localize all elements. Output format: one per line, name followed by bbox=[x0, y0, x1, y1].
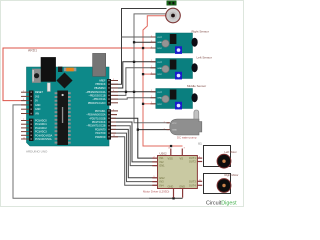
svg-text:Motor Driver (L293D): Motor Driver (L293D) bbox=[143, 189, 169, 193]
svg-text:3V3: 3V3 bbox=[35, 95, 40, 98]
wire Arduino PD1 to driver IN4 bbox=[111, 137, 158, 186]
svg-text:GND: GND bbox=[35, 104, 41, 107]
svg-text:PD7/AIN1: PD7/AIN1 bbox=[95, 110, 106, 113]
svg-text:Left Sensor: Left Sensor bbox=[197, 55, 212, 59]
wire stub Arduino PD7 bbox=[111, 114, 118, 116]
svg-text:PC1/ADC1: PC1/ADC1 bbox=[35, 123, 47, 126]
arduino USB connector bbox=[93, 53, 106, 76]
svg-text:GND: GND bbox=[157, 42, 162, 44]
wire box right motor bbox=[204, 174, 231, 194]
svg-text:2: 2 bbox=[151, 66, 152, 68]
svg-text:Right Motor: Right Motor bbox=[225, 173, 239, 177]
svg-text:4: 4 bbox=[113, 90, 114, 92]
svg-text:~PD3/INT1/OC2B: ~PD3/INT1/OC2B bbox=[86, 125, 105, 128]
logo CircuitDigest bbox=[206, 201, 237, 207]
wire servo grey lead down to water pump + bbox=[134, 14, 170, 123]
svg-text:PB5/SCK: PB5/SCK bbox=[95, 83, 106, 86]
wire red power branch to servo and down to motor driver VS bbox=[143, 16, 183, 146]
svg-text:IN3: IN3 bbox=[160, 180, 165, 184]
svg-text:VIN: VIN bbox=[35, 113, 39, 116]
svg-text:GND: GND bbox=[172, 130, 177, 132]
wire red stub to sensor 2 VCC bbox=[143, 73, 156, 75]
wire sensor1 OUT bbox=[122, 36, 156, 38]
arduino board name text bbox=[26, 149, 48, 153]
svg-text:EN1: EN1 bbox=[160, 164, 166, 168]
svg-text:3: 3 bbox=[151, 102, 152, 104]
arduino ATmega328 DIP chip bbox=[55, 91, 71, 146]
svg-text:OUT2: OUT2 bbox=[189, 160, 196, 164]
wire sensor3 GND to Arduino PB1 bbox=[111, 98, 156, 99]
label U1 bbox=[198, 141, 202, 145]
sensor module middle (IR flame sensor) bbox=[151, 89, 198, 110]
svg-text:OUT: OUT bbox=[157, 62, 162, 64]
motor driver IC U502 L293D bbox=[152, 149, 202, 198]
wire Arduino PD5 to driver IN2 bbox=[111, 122, 158, 162]
svg-text:U502: U502 bbox=[160, 151, 168, 155]
svg-text:~PD6/AIN0/OC0A: ~PD6/AIN0/OC0A bbox=[86, 114, 106, 117]
border frame bbox=[1, 1, 244, 207]
svg-text:ARD1: ARD1 bbox=[28, 49, 37, 53]
svg-text:RESET: RESET bbox=[35, 91, 44, 94]
arduino right pin stubs bbox=[111, 81, 118, 137]
svg-text:PB4/MISO: PB4/MISO bbox=[94, 87, 105, 90]
svg-text:U1: U1 bbox=[198, 141, 202, 145]
wire servo signal (black) to Arduino PB5 bbox=[111, 9, 167, 85]
label Right Motor bbox=[225, 173, 239, 177]
svg-text:Middle Sensor: Middle Sensor bbox=[187, 84, 206, 88]
svg-text:8: 8 bbox=[184, 148, 185, 150]
label Motor Driver (L293D) bbox=[143, 189, 169, 193]
svg-text:PD2/INT0: PD2/INT0 bbox=[95, 128, 106, 131]
svg-text:GND: GND bbox=[35, 108, 41, 111]
wire red stub to sensor 3 VCC bbox=[143, 103, 156, 105]
svg-text:OUT3: OUT3 bbox=[189, 179, 196, 183]
svg-text:VCC: VCC bbox=[172, 123, 177, 125]
arduino left pin stubs bbox=[21, 92, 29, 139]
svg-text:VCC: VCC bbox=[157, 104, 162, 106]
wire Arduino PD3 to driver EN2 bbox=[111, 129, 158, 177]
svg-text:OUT: OUT bbox=[157, 92, 162, 94]
wire sensor3 OUT from Arduino PB3 bbox=[111, 91, 156, 93]
svg-text:OUT1: OUT1 bbox=[189, 156, 196, 160]
water pump bbox=[164, 110, 202, 135]
wire sensor2 OUT to Arduino PB4 bbox=[111, 62, 156, 88]
svg-text:9: 9 bbox=[154, 176, 155, 178]
label Left Sensor bbox=[197, 55, 212, 59]
arduino crystal (black diamond) bbox=[56, 72, 72, 88]
wire Arduino PD2 to driver IN3 bbox=[111, 133, 158, 182]
wire Arduino PD6 to driver IN1 (black) bbox=[111, 118, 158, 158]
arduino reset button bbox=[32, 69, 41, 83]
label DC water pump bbox=[177, 136, 197, 140]
label Right Sensor bbox=[192, 30, 209, 34]
arduino right pin header bbox=[107, 79, 111, 140]
junction dots bbox=[125, 41, 175, 199]
svg-text:3: 3 bbox=[151, 46, 152, 48]
label U502 bbox=[160, 151, 168, 155]
svg-text:11: 11 bbox=[199, 180, 201, 182]
svg-text:GND: GND bbox=[157, 68, 162, 70]
svg-text:2: 2 bbox=[151, 41, 152, 43]
svg-text:GND: GND bbox=[168, 184, 174, 188]
svg-text:1: 1 bbox=[151, 35, 152, 37]
wire GND bus under driver (black) bbox=[150, 197, 183, 199]
arduino ARD1 board bbox=[27, 67, 110, 146]
svg-text:~PB1/OC1A: ~PB1/OC1A bbox=[92, 98, 105, 101]
svg-text:2: 2 bbox=[151, 96, 152, 98]
svg-text:~PB2/SS/OC1B: ~PB2/SS/OC1B bbox=[89, 94, 106, 97]
svg-text:~PB3/MOSI/OC2A: ~PB3/MOSI/OC2A bbox=[86, 91, 106, 94]
svg-text:ARDUINO UNO: ARDUINO UNO bbox=[26, 149, 48, 153]
svg-text:1: 1 bbox=[151, 90, 152, 92]
svg-text:OUT: OUT bbox=[157, 37, 162, 39]
svg-text:OUT4: OUT4 bbox=[189, 183, 196, 187]
motor right bbox=[217, 179, 231, 193]
svg-text:PD1/TXD: PD1/TXD bbox=[95, 132, 105, 135]
arduino power LED (orange) bbox=[64, 68, 76, 72]
svg-text:EN2: EN2 bbox=[160, 176, 166, 180]
svg-text:3: 3 bbox=[151, 73, 152, 75]
sensor module right (IR flame sensor) bbox=[151, 33, 198, 54]
wire sensor1 GND bbox=[134, 41, 156, 43]
svg-text:IN2: IN2 bbox=[160, 160, 165, 164]
wire 5V rail (red) from Arduino 5V pin around left/top to sensor 1 VCC bbox=[3, 48, 156, 101]
wire box left motor bbox=[204, 146, 231, 167]
svg-text:GND: GND bbox=[157, 98, 162, 100]
arduino label ARD1 bbox=[28, 49, 37, 53]
svg-text:IN4: IN4 bbox=[160, 183, 165, 187]
pin number marks (red) bbox=[23, 35, 201, 181]
svg-text:1: 1 bbox=[151, 60, 152, 62]
motor left bbox=[217, 154, 231, 168]
svg-text:VCC: VCC bbox=[157, 74, 162, 76]
svg-text:7: 7 bbox=[23, 119, 24, 121]
svg-text:1: 1 bbox=[23, 91, 24, 93]
svg-text:Left Motor: Left Motor bbox=[225, 150, 237, 154]
sensor module left (IR flame sensor) bbox=[151, 59, 198, 80]
svg-text:~PD5/T1/OC0B: ~PD5/T1/OC0B bbox=[89, 117, 106, 120]
svg-text:PC5/ADC5/SCL: PC5/ADC5/SCL bbox=[35, 138, 53, 141]
svg-text:PC4/ADC4/SDA: PC4/ADC4/SDA bbox=[35, 134, 53, 137]
servo motor (top) bbox=[166, 1, 181, 23]
wire GND rail (grey) from Arduino GND pin down-left and along bottom to driver GND bbox=[13, 105, 150, 198]
arduino left pin header bbox=[29, 91, 34, 142]
svg-text:3: 3 bbox=[199, 157, 200, 159]
wire water pump - (black) bbox=[138, 129, 170, 131]
svg-text:PD0/RXD: PD0/RXD bbox=[95, 136, 106, 139]
label Middle Sensor bbox=[187, 84, 206, 88]
svg-text:5V: 5V bbox=[35, 100, 38, 103]
svg-text:PC0/ADC0: PC0/ADC0 bbox=[35, 120, 47, 123]
arduino SMD component near top edge bbox=[58, 67, 62, 72]
svg-text:12: 12 bbox=[23, 137, 25, 139]
svg-text:3: 3 bbox=[23, 99, 24, 101]
arduino right pin labels bbox=[86, 80, 107, 139]
svg-text:PC3/ADC3: PC3/ADC3 bbox=[35, 131, 47, 134]
wire Arduino PD4 to driver EN1 bbox=[111, 126, 158, 166]
svg-text:PD4/T0/XCK: PD4/T0/XCK bbox=[92, 121, 106, 124]
svg-text:16: 16 bbox=[168, 148, 170, 150]
arduino capacitor near jack bbox=[47, 83, 50, 92]
arduino left pin labels bbox=[35, 91, 53, 141]
svg-text:VS: VS bbox=[180, 157, 184, 161]
svg-text:VSS: VSS bbox=[168, 157, 173, 161]
svg-text:GND: GND bbox=[179, 184, 185, 188]
svg-text:Right Sensor: Right Sensor bbox=[192, 30, 209, 34]
svg-text:2: 2 bbox=[154, 157, 155, 159]
svg-text:CircuitDigest: CircuitDigest bbox=[206, 201, 237, 207]
svg-text:PC2/ADC2: PC2/ADC2 bbox=[35, 127, 47, 130]
svg-text:VCC: VCC bbox=[157, 48, 162, 50]
svg-text:PB0/ICP1/CLKO: PB0/ICP1/CLKO bbox=[88, 102, 106, 105]
svg-text:8: 8 bbox=[113, 109, 114, 111]
svg-text:AREF: AREF bbox=[99, 80, 106, 83]
svg-text:1: 1 bbox=[113, 79, 114, 81]
svg-text:DC water pump: DC water pump bbox=[177, 136, 197, 140]
wire sensor2 GND to Arduino PB2 bbox=[111, 68, 156, 96]
arduino power jack bbox=[41, 57, 56, 82]
svg-text:15: 15 bbox=[113, 135, 115, 137]
label Left Motor bbox=[225, 150, 237, 154]
svg-text:IN1: IN1 bbox=[160, 156, 165, 160]
